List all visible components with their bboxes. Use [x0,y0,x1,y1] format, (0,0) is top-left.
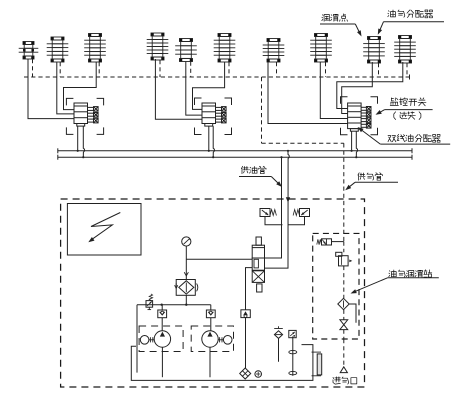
wire filter to low line [185,295,187,304]
dual-line oil distributor B3 (with monitoring switches) [348,103,371,131]
wire oil D9 to block B3 [342,62,373,114]
lightning bolt symbol [91,213,120,240]
oil-gas distributor D5 [175,39,197,62]
pipe from B1 to supply buses [77,126,79,151]
bracket frame around B2 [195,98,232,135]
oil-gas distributor D8 [310,34,332,63]
label lubrication point 润滑点 [322,14,348,21]
pressure gauge [182,237,191,246]
wire pilot left to pipe [265,217,283,225]
wire oil D2 to block B1 [57,62,74,114]
wire valve drain [246,268,253,310]
tank heater [312,351,322,353]
wire relief drain [136,305,138,373]
oil-gas distributor D6 [214,34,236,63]
oil-gas distributor D3 [84,34,106,63]
wire air feeder horizontal (dashed) [262,142,344,144]
label leader for 监控开关 [385,109,433,111]
wire mixer outlet [349,304,356,323]
wire oil D10 to block B3 [337,62,403,109]
wire drain to tank [245,318,247,368]
flow arrow on supply pipe [286,197,290,202]
oil-gas distributor D9 [363,37,385,64]
directional valve pilot cap bottom [257,284,262,292]
air bus right end tick [409,75,411,80]
check valve above pump P1 [161,305,163,310]
level gauge line [292,336,294,375]
label dual-line distributor 双线油分配器 [388,134,440,142]
label air supply pipe 供气管 [358,173,383,180]
wire pump P2 suction [209,347,211,377]
motor-pump unit P2 [202,331,218,347]
wire air drop from D5 [190,62,192,78]
wire breather into tank [278,338,280,361]
oil tank [131,345,313,381]
wire air drop from D4 [159,60,161,77]
wire air inlet (dashed) [343,339,345,367]
directional valve mid body [252,258,264,270]
wire oil D5 to block B2 [186,62,202,116]
wire oil D6 to block B2 [193,62,225,109]
electric control box [67,204,141,256]
label oil supply pipe 供油管 [241,166,266,173]
directional valve pilot cap top [256,237,261,245]
label oil-gas distributor 油气分配器 [388,10,433,18]
wire pilot right to pipe [288,217,305,225]
pipe from B3 to supply buses [351,131,353,151]
wire oil D3 to block B1 [64,62,97,110]
wire oil D7 to block B3 [268,62,348,124]
wire oil D4 to block B2 [155,59,202,119]
oil-gas mixer diamond [338,298,349,309]
air bus line (dashed) [24,76,410,78]
drain coupling diamond [240,368,251,379]
oil-gas distributor D7 [263,39,285,63]
bracket frame around B3 [341,97,378,135]
wire air drop from D8 [325,62,327,77]
wire air feeder vertical to station (dashed) [343,143,345,241]
supply pipe to station (left line) [265,157,282,258]
directional valve X section [252,271,264,283]
oil-gas distributor D4 [147,33,169,60]
oil-gas distributor D1 [19,42,39,60]
air filter-regulator [336,252,342,256]
wire air drop from D1 [32,59,34,77]
pilot solenoid valve left [260,209,270,217]
filter with bypass F1 [176,280,195,296]
oil supply bus lower [58,156,412,158]
label leader for 润滑点 [320,23,355,25]
oil-gas distributor D10 [394,36,416,64]
label leader for 供油管 [239,176,271,178]
junction dots [161,304,163,306]
flow arrow above filter [184,272,188,276]
wire regulator to mixer [343,266,345,298]
check element on drain [241,310,250,318]
label optional （选装） [394,112,421,120]
label oil-gas lubrication station 油气润滑站 [389,270,432,278]
pump unit frame 1 [139,326,183,352]
wire air valve to line [332,241,344,243]
low line [137,304,211,306]
label leader for 供气管 [355,181,398,183]
wire oil D1 to block B1 [28,59,74,119]
station outer dashed box [61,199,365,387]
shutoff valve (bowtie) [340,320,348,325]
wire shutoff to box edge [343,330,345,339]
directional valve upper body [252,245,264,258]
wire gauge stem [185,246,187,279]
air solenoid valve [322,239,332,245]
wire air drop from D10 [406,63,408,77]
oil supply bus upper [58,150,412,152]
bracket frame around B1 [66,98,103,134]
wire oil D8 to block B3 [320,62,347,119]
wire mixer to shutoff [343,310,345,320]
label air inlet 进气口 [333,377,357,384]
bus end ticks [57,148,59,153]
supply pipe to station (right line) [265,151,290,268]
air unit inner dashed box [313,233,359,339]
wire pump P1 suction [161,347,163,377]
motor-pump unit P1 [154,331,170,347]
oil-gas distributor D2 [47,37,69,62]
drain plug [255,371,262,378]
dual-line oil distributor B2 [202,103,226,126]
label leader for 双线油分配器 [380,143,450,145]
breather cap [274,328,283,330]
wire gauge tee to valve [186,258,252,260]
wire air feeder drop (dashed) [261,77,263,143]
wire air drop from D3 [98,62,100,77]
wire air drop from D6 [228,62,230,77]
label monitoring switch 监控开关 [390,98,426,106]
pipe from B2 to supply buses [208,126,210,151]
level gauge lens marks [289,350,297,353]
wire air drop from D2 [59,62,61,77]
check valve above pump P2 [210,305,212,310]
wire air line valve to regulator [343,242,345,253]
pump unit frame 2 [191,326,233,352]
level switch box [289,330,296,337]
wire air drop from D7 [276,62,278,77]
label leader for 油气润滑站 [388,277,439,279]
air inlet triangle [340,367,347,373]
label leader for 油气分配器 [384,21,445,23]
pilot solenoid valve right [300,209,310,217]
dual-line oil distributor B1 [74,103,98,126]
relief valve RV [146,301,153,308]
wire air drop from D9 [378,63,380,77]
